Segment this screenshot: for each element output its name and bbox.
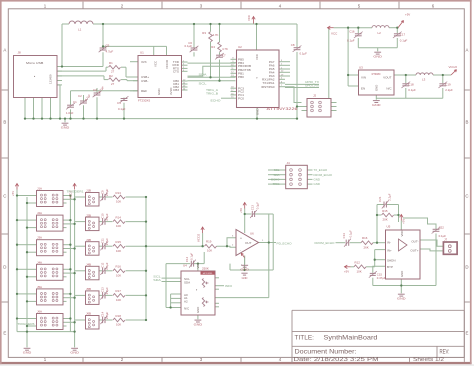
svg-text:J3B: J3B <box>86 238 91 242</box>
svg-text:L3: L3 <box>422 78 426 82</box>
svg-text:10K: 10K <box>116 298 121 302</box>
svg-text:SDA: SDA <box>274 173 280 177</box>
svg-text:ECHO: ECHO <box>271 178 280 182</box>
svg-text:J8: J8 <box>18 51 22 55</box>
svg-text:-: - <box>240 248 241 252</box>
svg-text:BYP: BYP <box>387 265 393 269</box>
svg-text:D: D <box>465 265 468 270</box>
svg-text:ATTINY3226: ATTINY3226 <box>267 107 298 111</box>
svg-text:J6A: J6A <box>37 310 42 314</box>
svg-text:R15: R15 <box>382 209 388 213</box>
svg-text:R13: R13 <box>116 191 122 195</box>
svg-text:RT9080: RT9080 <box>372 73 381 76</box>
svg-text:0.1µF: 0.1µF <box>408 88 416 92</box>
svg-text:SCL: SCL <box>199 82 207 86</box>
svg-text:SHDN: SHDN <box>387 258 396 262</box>
svg-text:C21: C21 <box>378 196 382 202</box>
svg-text:0.1µF: 0.1µF <box>300 52 308 56</box>
svg-text:10K: 10K <box>116 323 121 327</box>
svg-text:2.2µF: 2.2µF <box>105 213 109 220</box>
svg-text:U3: U3 <box>359 66 363 70</box>
svg-text:J1B: J1B <box>86 189 91 193</box>
svg-text:+5V: +5V <box>11 191 15 196</box>
svg-text:R16: R16 <box>116 265 122 269</box>
svg-text:C: C <box>465 194 468 199</box>
svg-text:0.1µF: 0.1µF <box>118 107 126 111</box>
svg-text:R17: R17 <box>116 289 122 293</box>
svg-text:C17: C17 <box>400 33 406 37</box>
svg-text:+5V: +5V <box>239 208 243 213</box>
svg-text:GND: GND <box>314 178 320 182</box>
svg-text:0.1µF: 0.1µF <box>189 253 193 260</box>
svg-text:0.1µF: 0.1µF <box>185 44 193 48</box>
svg-text:VCC: VCC <box>154 61 158 67</box>
svg-text:PB0: PB0 <box>238 75 244 79</box>
svg-text:GND: GND <box>400 271 404 277</box>
svg-text:L1: L1 <box>78 28 82 32</box>
svg-text:CB3: CB3 <box>173 88 179 92</box>
svg-text:E: E <box>3 331 6 336</box>
svg-text:4.7K: 4.7K <box>213 33 219 37</box>
svg-text:U6: U6 <box>250 232 254 236</box>
svg-text:4.7µF: 4.7µF <box>106 50 114 54</box>
svg-text:GND: GND <box>314 182 320 186</box>
svg-text:0.1µF: 0.1µF <box>349 230 353 237</box>
svg-text:TRIGGER6: TRIGGER6 <box>18 322 35 326</box>
svg-text:GND: GND <box>196 307 200 313</box>
svg-text:OUT+: OUT+ <box>410 248 418 252</box>
svg-text:C4: C4 <box>117 101 121 105</box>
svg-text:2.2µF: 2.2µF <box>105 287 109 294</box>
svg-text:OUT-: OUT- <box>411 239 418 243</box>
svg-text:J5B: J5B <box>86 287 91 291</box>
svg-text:GND: GND <box>242 276 248 280</box>
svg-text:GND: GND <box>256 109 260 115</box>
svg-text:D: D <box>3 265 6 270</box>
svg-text:U4: U4 <box>183 263 187 267</box>
svg-text:VCC: VCC <box>331 32 338 36</box>
svg-text:EN: EN <box>361 87 365 91</box>
svg-text:J2A: J2A <box>37 211 42 215</box>
svg-text:VCCIO: VCCIO <box>165 59 169 69</box>
svg-text:R3: R3 <box>202 31 206 35</box>
svg-text:J7: J7 <box>444 238 448 242</box>
svg-text:C16: C16 <box>349 30 355 34</box>
svg-text:Document Number:: Document Number: <box>295 349 357 355</box>
svg-text:GND: GND <box>372 103 382 107</box>
svg-text:R16: R16 <box>362 236 368 240</box>
svg-text:C14: C14 <box>342 233 346 239</box>
svg-text:20K: 20K <box>383 218 388 222</box>
svg-text:Sheets 1/2: Sheets 1/2 <box>413 357 444 363</box>
svg-text:GND: GND <box>70 351 80 355</box>
svg-text:VCC: VCC <box>196 263 200 269</box>
svg-text:▸: ▸ <box>196 289 197 292</box>
svg-text:+: + <box>240 237 242 241</box>
svg-text:OUT: OUT <box>245 241 252 245</box>
svg-text:J1A: J1A <box>37 187 42 191</box>
svg-text:GND: GND <box>373 55 383 59</box>
svg-text:C12: C12 <box>185 256 189 262</box>
svg-text:VIN: VIN <box>361 76 366 80</box>
svg-text:2.2µF: 2.2µF <box>105 312 109 319</box>
svg-text:3V3: 3V3 <box>141 60 147 64</box>
svg-text:FROM_ECHO: FROM_ECHO <box>315 241 336 245</box>
svg-text:/RST/PA0: /RST/PA0 <box>261 85 275 89</box>
svg-text:C18: C18 <box>408 83 414 87</box>
svg-text:4.7K: 4.7K <box>222 47 228 51</box>
svg-text:Micro USB: Micro USB <box>26 61 43 65</box>
svg-text:GND: GND <box>61 126 71 130</box>
svg-text:10K: 10K <box>207 249 212 253</box>
svg-text:J2: J2 <box>313 94 317 98</box>
svg-text:+5V: +5V <box>405 13 410 17</box>
svg-text:C22: C22 <box>439 225 445 229</box>
svg-text:R15: R15 <box>116 240 122 244</box>
svg-text:+5V: +5V <box>344 270 349 274</box>
svg-text:TITLE:: TITLE: <box>295 335 315 342</box>
svg-text:WF0: WF0 <box>225 284 232 288</box>
svg-text:C5: C5 <box>106 44 110 48</box>
svg-text:VCC/2: VCC/2 <box>449 65 458 69</box>
svg-text:10K: 10K <box>116 249 121 253</box>
svg-text:0.1µF: 0.1µF <box>347 39 355 43</box>
svg-text:U1: U1 <box>140 51 144 55</box>
svg-text:R2: R2 <box>109 74 113 78</box>
svg-text:0.1µF: 0.1µF <box>400 39 408 43</box>
svg-text:R18: R18 <box>116 314 122 318</box>
svg-text:J6B: J6B <box>86 312 91 316</box>
svg-text:REF: REF <box>141 89 147 93</box>
svg-text:0.47µF: 0.47µF <box>377 276 386 280</box>
svg-text:J4A: J4A <box>37 260 42 264</box>
svg-text:R12: R12 <box>355 260 361 264</box>
svg-text:SDA: SDA <box>199 72 207 76</box>
svg-text:2.2µF: 2.2µF <box>105 262 109 269</box>
svg-text:C1: C1 <box>73 100 77 104</box>
svg-text:27: 27 <box>111 70 115 74</box>
svg-text:A: A <box>466 48 469 53</box>
svg-text:VCC: VCC <box>247 15 251 21</box>
svg-text:PC0: PC0 <box>238 96 244 100</box>
svg-text:SynthMainBoard: SynthMainBoard <box>324 335 378 342</box>
svg-text:R4: R4 <box>211 45 215 49</box>
svg-text:10K: 10K <box>116 273 121 277</box>
svg-text:GND: GND <box>240 268 250 272</box>
svg-text:VDD: VDD <box>400 231 404 237</box>
svg-text:2.2µF: 2.2µF <box>387 193 391 200</box>
svg-text:VOUT: VOUT <box>383 76 392 80</box>
svg-text:10K: 10K <box>357 269 362 273</box>
svg-text:E: E <box>466 331 469 336</box>
svg-text:B: B <box>3 120 6 125</box>
svg-text:SCL: SCL <box>274 168 280 172</box>
svg-text:PD_ECHO: PD_ECHO <box>277 241 293 245</box>
svg-text:SDA: SDA <box>184 280 190 284</box>
svg-text:VCC: VCC <box>255 54 259 60</box>
svg-text:USB-: USB- <box>141 79 148 83</box>
svg-text:26K: 26K <box>364 245 369 249</box>
svg-text:N/C: N/C <box>184 307 190 311</box>
svg-text:U2: U2 <box>238 45 242 49</box>
svg-text:GND: GND <box>157 89 161 95</box>
svg-text:TX_ECHO: TX_ECHO <box>314 168 328 172</box>
svg-text:J4B: J4B <box>86 263 91 267</box>
svg-text:Date: 2/18/2023 3:25 PM: Date: 2/18/2023 3:25 PM <box>294 357 380 363</box>
svg-text:J2B: J2B <box>86 213 91 217</box>
svg-text:TRIG: TRIG <box>273 182 281 186</box>
svg-text:10K: 10K <box>116 200 121 204</box>
svg-text:CTS: CTS <box>173 69 179 73</box>
svg-text:123459: 123459 <box>49 74 53 84</box>
svg-text:R19: R19 <box>206 240 212 244</box>
svg-text:2.2µF: 2.2µF <box>445 88 453 92</box>
svg-text:1: 1 <box>241 265 242 267</box>
svg-text:27: 27 <box>111 82 115 86</box>
svg-text:TRIGGER1: TRIGGER1 <box>67 190 84 194</box>
svg-text:GND: GND <box>23 351 33 355</box>
svg-text:U5: U5 <box>387 225 391 229</box>
svg-text:IN+: IN+ <box>387 248 392 252</box>
svg-text:A: A <box>3 48 6 53</box>
svg-text:J5A: J5A <box>37 285 42 289</box>
svg-text:N/C: N/C <box>386 87 392 91</box>
svg-text:B: B <box>466 120 469 125</box>
svg-text:A2: A2 <box>184 300 188 304</box>
svg-text:C13: C13 <box>250 205 254 211</box>
svg-text:C19: C19 <box>445 83 451 87</box>
svg-text:ECHO: ECHO <box>211 99 222 103</box>
svg-text:C2: C2 <box>78 94 82 98</box>
svg-text:J4: J4 <box>287 161 291 165</box>
svg-text:J3A: J3A <box>37 236 42 240</box>
svg-text:0.1µF: 0.1µF <box>255 202 259 209</box>
svg-text:2.2µF: 2.2µF <box>105 238 109 245</box>
svg-text:TRIG_B: TRIG_B <box>206 91 218 95</box>
svg-text:L2: L2 <box>378 31 382 35</box>
svg-text:C7: C7 <box>222 54 226 58</box>
svg-text:GND: GND <box>375 85 379 91</box>
svg-text:FT230XS: FT230XS <box>138 99 150 103</box>
svg-text:C8: C8 <box>291 43 295 47</box>
svg-text:SDA: SDA <box>153 278 161 282</box>
svg-text:IN-: IN- <box>387 241 391 245</box>
svg-text:1.0nF: 1.0nF <box>66 111 74 115</box>
svg-text:VCC/2: VCC/2 <box>197 233 201 242</box>
svg-text:2.2µF: 2.2µF <box>105 189 109 196</box>
svg-text:FROM_ECHO: FROM_ECHO <box>314 173 333 177</box>
svg-text:R14: R14 <box>116 215 122 219</box>
svg-text:+5V: +5V <box>402 219 406 224</box>
svg-text:C: C <box>3 194 6 199</box>
svg-text:REV:: REV: <box>440 349 450 355</box>
svg-text:MCP4251: MCP4251 <box>203 273 214 275</box>
svg-text:R1: R1 <box>109 61 113 65</box>
svg-text:GND: GND <box>397 297 407 301</box>
svg-text:250K: 250K <box>202 266 209 270</box>
svg-text:UPDI_RX: UPDI_RX <box>305 84 319 88</box>
svg-text:10K: 10K <box>116 224 121 228</box>
svg-text:GND: GND <box>194 322 204 326</box>
